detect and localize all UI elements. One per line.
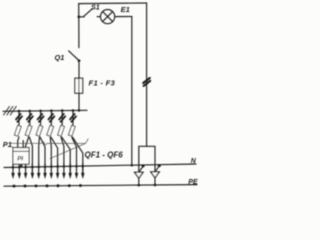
lamp E1 xyxy=(101,10,115,24)
node bus junction 6 xyxy=(72,109,75,112)
wire QF4 down xyxy=(50,137,51,164)
wire QF5 down xyxy=(61,137,64,164)
SPD box xyxy=(139,146,155,165)
wire S1 to lamp xyxy=(97,16,100,18)
wire+arrow 12 xyxy=(82,164,84,174)
wire branch 5 xyxy=(61,111,63,125)
node PE dots xyxy=(13,185,16,188)
wire+arrow 3 xyxy=(25,164,27,173)
svg-text:PE: PE xyxy=(188,179,198,186)
switch S1 xyxy=(79,16,84,18)
breaker QF4 xyxy=(47,125,54,136)
svg-text:Q1: Q1 xyxy=(55,53,65,62)
node left drop on N xyxy=(131,164,134,167)
wire branch 1 xyxy=(18,111,20,125)
svg-text:QF1 - QF6: QF1 - QF6 xyxy=(85,151,124,160)
svg-text:PI: PI xyxy=(17,156,23,163)
switch Q1 xyxy=(69,51,79,61)
connector chevron 6 xyxy=(70,114,76,122)
breaker QF1 xyxy=(14,125,21,136)
wire branch 6 xyxy=(72,111,74,125)
connector chevron 3 xyxy=(38,114,44,122)
wire left vertical drop to N xyxy=(131,17,133,166)
wire lamp to right drop xyxy=(115,16,132,18)
node bus junction 4 xyxy=(50,109,53,112)
meter P1 xyxy=(13,148,29,165)
svg-text:F1 - F3: F1 - F3 xyxy=(89,79,116,88)
bus bar xyxy=(3,110,87,111)
svg-text:E1: E1 xyxy=(121,5,130,14)
wire+arrow 11 xyxy=(76,164,78,174)
node bus junction 2 xyxy=(29,110,32,113)
node S1 tap junction xyxy=(77,16,80,19)
wire top horizontal xyxy=(79,2,147,5)
wire+arrow 4 xyxy=(31,164,33,174)
wire N line xyxy=(4,164,196,168)
node bus junction 5 xyxy=(61,109,64,112)
node feed-bus junction xyxy=(78,109,81,112)
wire meter out xyxy=(20,164,22,166)
wire QF2 down xyxy=(26,137,29,164)
wire meter stub in 2 xyxy=(22,141,24,148)
fuse F1-F3 xyxy=(75,78,83,93)
wire QF3 down xyxy=(38,137,41,164)
wire right vertical drop to SPD xyxy=(146,3,148,146)
node bus junction 1 xyxy=(18,110,21,113)
wire+arrow 9 xyxy=(63,164,65,174)
leader QF diagonal xyxy=(50,143,86,158)
connector chevron on right drop xyxy=(143,78,150,86)
wire branch 2 xyxy=(29,111,31,125)
breaker QF2 xyxy=(25,125,32,136)
wire main feed upper xyxy=(78,17,80,48)
wire branch 3 xyxy=(40,111,42,125)
wire branch 4 xyxy=(50,111,52,125)
breaker QF5 xyxy=(58,125,65,136)
wire+arrow 2 xyxy=(18,164,20,173)
node bus junction 3 xyxy=(39,110,42,113)
three-phase slashes xyxy=(4,106,17,115)
breaker QF3 xyxy=(36,125,43,136)
wire+arrow 10 xyxy=(69,164,71,174)
svg-text:P1: P1 xyxy=(3,140,12,149)
wire+arrow 1 xyxy=(12,164,14,173)
connector chevron 4 xyxy=(48,114,54,122)
arrester F-left xyxy=(138,165,140,185)
connector chevron 5 xyxy=(59,114,65,122)
leader QF horizontal with break xyxy=(9,139,88,145)
wire top-left drop to S1 tap xyxy=(78,4,80,17)
svg-text:S1: S1 xyxy=(91,3,100,12)
wire+arrow 5 xyxy=(38,164,40,174)
breaker QF6 xyxy=(68,125,75,136)
connector chevron 1 xyxy=(16,114,22,122)
wire+arrow 7 xyxy=(50,164,52,174)
arrester F-right xyxy=(154,165,156,185)
wire QF1 to meter xyxy=(18,137,19,148)
leader P1 xyxy=(10,146,13,148)
wire+arrow 8 xyxy=(57,164,59,174)
wire Q1 to fuse and bus xyxy=(78,61,80,111)
wire QF6 down xyxy=(72,137,77,164)
wire PE line xyxy=(4,185,197,187)
connector chevron 2 xyxy=(27,114,33,122)
wire+arrow 6 xyxy=(44,164,46,174)
